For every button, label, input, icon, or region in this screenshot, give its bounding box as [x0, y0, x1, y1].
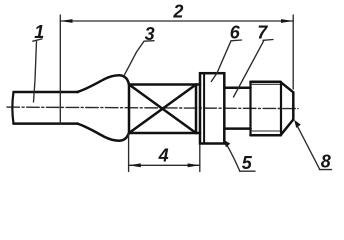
leader 8 underline: [320, 169, 332, 171]
svg-text:8: 8: [321, 152, 331, 172]
leader 5 arrow: [223, 140, 230, 148]
nose chamfer bottom: [281, 120, 294, 136]
thread crest bottom: [251, 134, 281, 137]
svg-text:6: 6: [230, 23, 241, 43]
dim 4 arrow right: [188, 163, 200, 167]
handle X diagonal 2: [129, 85, 196, 134]
thread root bottom: [252, 130, 281, 132]
dim 2 extension line right: [292, 15, 294, 89]
leader 5 underline: [240, 170, 255, 172]
handle X diagonal 1: [129, 85, 196, 134]
leader 3 line: [124, 41, 144, 75]
nose chamfer top: [280, 82, 293, 93]
dim 2 extension line left: [59, 15, 61, 124]
shank left cap: [12, 92, 13, 124]
svg-text:7: 7: [257, 22, 268, 42]
svg-text:2: 2: [172, 1, 183, 21]
dim 2 arrow left: [60, 19, 72, 23]
leader 6 underline: [231, 39, 242, 42]
taper bottom curve: [77, 124, 129, 141]
collar: [200, 73, 224, 143]
neck top line: [196, 83, 200, 86]
leader 7 line: [234, 40, 265, 97]
leader 7 underline: [263, 39, 273, 42]
dim 4 extension line right: [199, 145, 201, 172]
svg-text:5: 5: [242, 153, 253, 173]
shank bottom line: [14, 122, 79, 125]
thread end line: [280, 82, 282, 136]
cylinder top line: [224, 86, 250, 89]
leader 6 line: [211, 41, 231, 82]
leader 1 line: [34, 41, 37, 102]
leader 3 underline: [144, 40, 154, 43]
handle box: [129, 85, 196, 134]
leader 8 arrow: [294, 120, 301, 128]
shank top line: [14, 91, 79, 94]
thread root top: [252, 83, 281, 85]
dim 2 arrow right: [281, 19, 293, 23]
centerline: [7, 107, 298, 109]
leader 8 line: [296, 123, 320, 170]
collar inner line: [203, 73, 205, 143]
neck bottom line: [196, 132, 200, 135]
thread crest top: [251, 81, 281, 84]
leader 1 underline: [33, 39, 42, 41]
nose right face: [292, 92, 295, 119]
taper top curve: [77, 75, 129, 92]
leader 5 line: [224, 141, 240, 171]
dim 4 line: [129, 164, 200, 166]
cylinder bottom line: [224, 127, 250, 130]
dim 2 line: [60, 20, 293, 22]
dim 4 arrow left: [129, 163, 141, 167]
thread left face: [249, 82, 251, 136]
dim 4 extension line left: [128, 135, 130, 172]
svg-text:4: 4: [158, 145, 169, 165]
